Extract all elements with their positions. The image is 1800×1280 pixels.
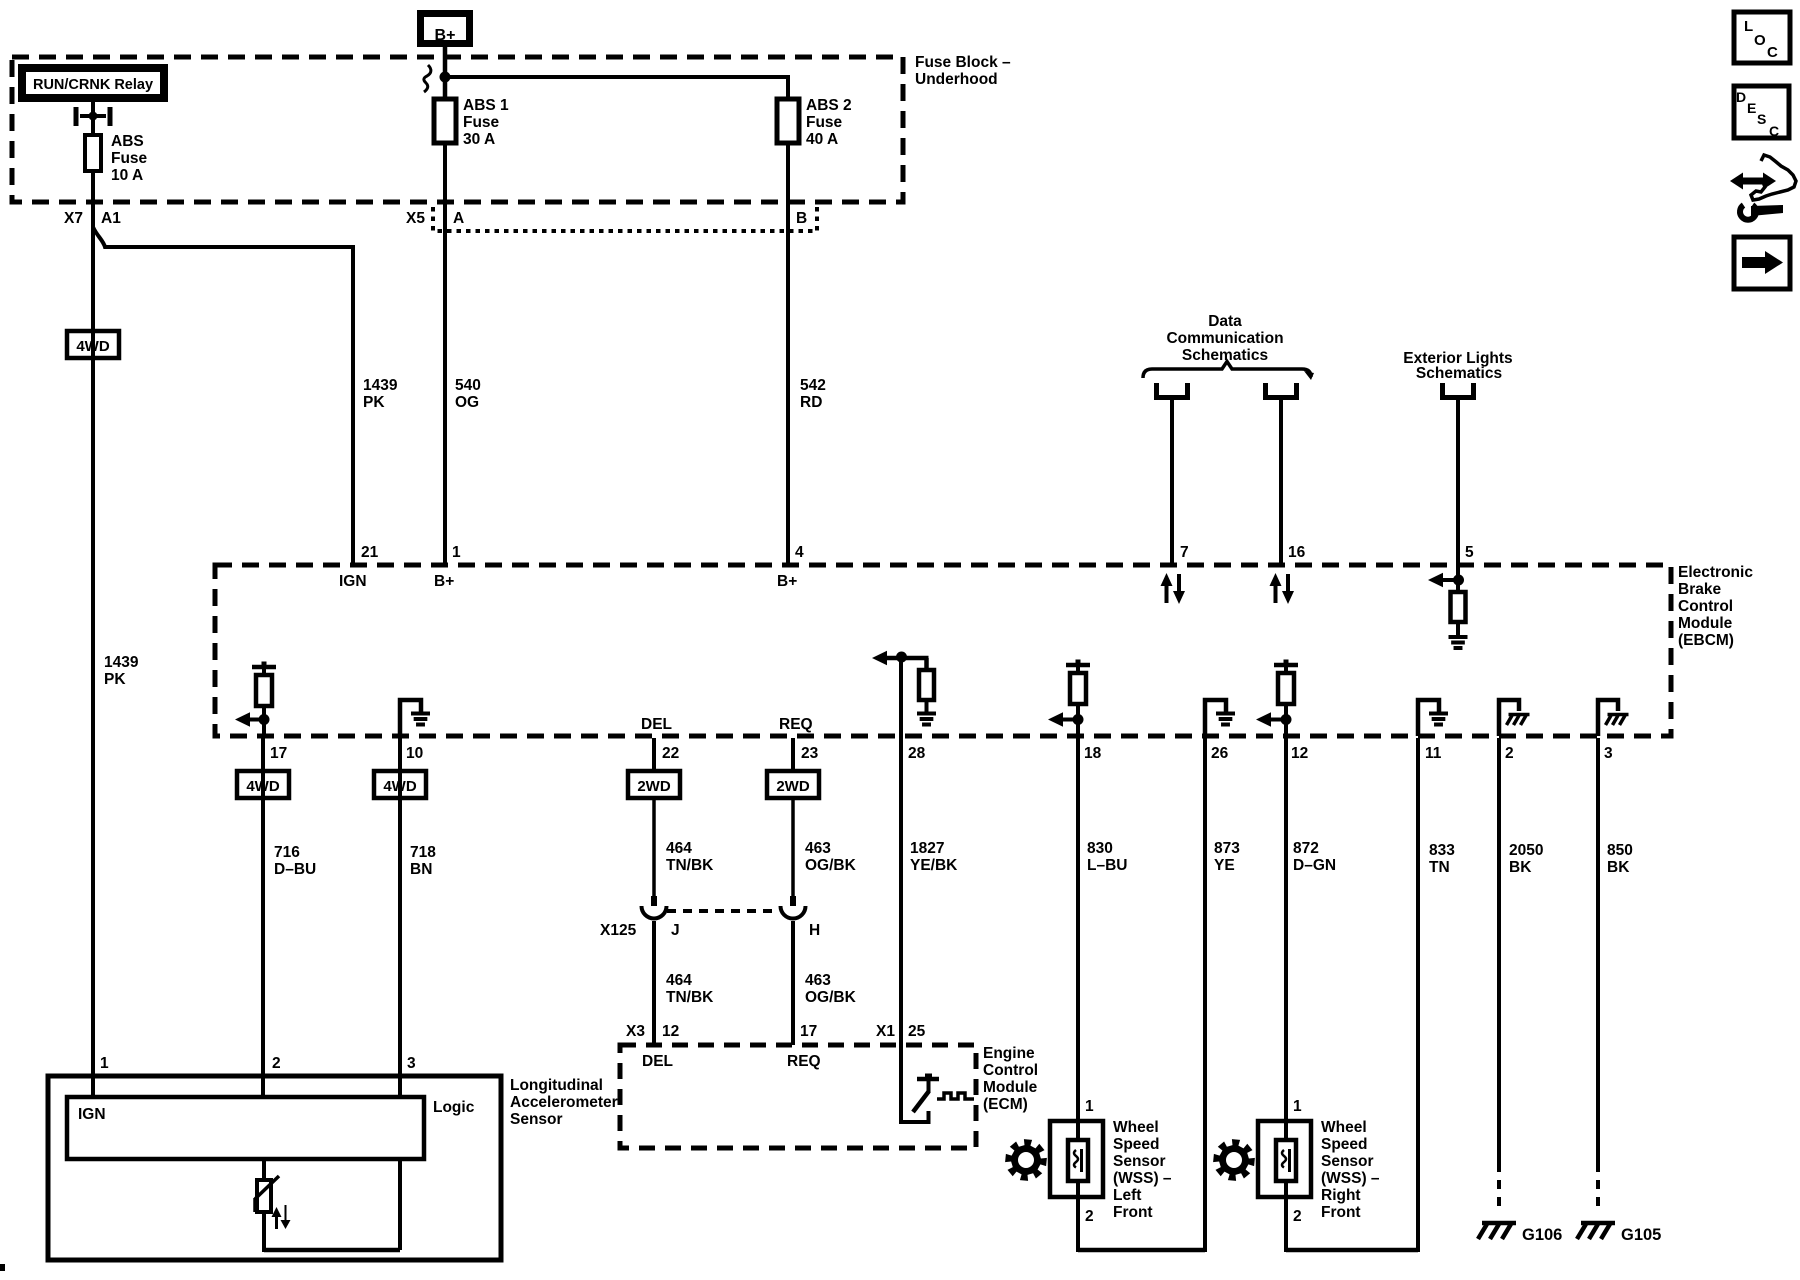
svg-text:Fuse: Fuse [111,150,148,167]
svg-text:4: 4 [795,544,804,561]
svg-text:X5: X5 [406,210,425,227]
svg-text:C: C [1767,44,1778,61]
svg-text:1: 1 [452,544,461,561]
svg-text:Schematics: Schematics [1416,365,1502,382]
chassis ground G105 [1577,1223,1615,1239]
svg-text:(WSS) –: (WSS) – [1113,1170,1172,1187]
svg-text:30 A: 30 A [463,131,495,148]
svg-text:540: 540 [455,377,481,394]
chassis ground G106 [1478,1223,1516,1239]
svg-text:YE: YE [1214,857,1235,874]
svg-text:Control: Control [983,1062,1038,1079]
wire B+ to ABS2 fuse [445,75,788,79]
svg-text:4WD: 4WD [383,778,417,795]
svg-text:X7: X7 [64,210,83,227]
wire relay to ABS fuse [91,102,95,135]
connector X125 H half circle [781,906,806,919]
svg-text:2WD: 2WD [776,778,810,795]
svg-text:Communication: Communication [1166,330,1283,347]
connector tag 2WD pin 22 [628,771,680,798]
svg-text:463: 463 [805,972,831,989]
ECM dashed box [620,1045,976,1148]
wire WSS left pin 2 to EBCM pin 26 [1078,1248,1205,1253]
svg-text:Sensor: Sensor [1321,1153,1374,1170]
svg-text:REQ: REQ [787,1053,821,1070]
svg-text:Fuse: Fuse [806,114,843,131]
wheel speed sensor left box [1050,1121,1103,1197]
sensor internal return wire [262,1212,266,1252]
svg-text:B+: B+ [777,573,797,590]
pin 10 internal ground hook [400,700,421,736]
svg-text:10 A: 10 A [111,167,143,184]
svg-text:YE/BK: YE/BK [910,857,958,874]
pin 3 internal chassis ground hook [1598,700,1618,736]
page edge mark [0,1264,5,1271]
svg-text:H: H [809,922,820,939]
bidirectional data arrows pin 7 [1165,584,1169,603]
svg-text:E: E [1747,100,1756,116]
svg-text:BK: BK [1509,859,1532,876]
svg-text:7: 7 [1180,544,1189,561]
wheel speed sensor right box [1258,1121,1311,1197]
connector X125 J half circle [642,906,667,918]
wire pin 22 DEL upper [652,738,656,771]
svg-text:Speed: Speed [1321,1136,1368,1153]
bidirectional data arrows pin 16 [1274,584,1278,603]
svg-text:Data: Data [1208,313,1242,330]
svg-text:IGN: IGN [78,1106,106,1123]
svg-text:(EBCM): (EBCM) [1678,632,1734,649]
svg-text:2: 2 [1505,745,1514,762]
svg-text:O: O [1754,32,1766,49]
fuse ABS Fuse 10 A [85,135,101,171]
svg-text:L: L [1744,18,1753,35]
wire X125 H to ECM REQ [791,921,795,1045]
wire pin 23 REQ upper [791,738,795,771]
pin 5 internal wire and arrow [1456,565,1460,592]
svg-text:(WSS) –: (WSS) – [1321,1170,1380,1187]
pin 12 junction and arrow [1281,714,1292,725]
pin 28 resistor to ground [924,658,929,670]
svg-text:TN/BK: TN/BK [666,989,714,1006]
svg-text:Longitudinal: Longitudinal [510,1077,603,1094]
gear icon right wheel [1213,1139,1255,1181]
wire WSS right inner [1284,1123,1288,1140]
svg-text:A1: A1 [101,210,121,227]
connector X5 dotted box [433,207,817,231]
svg-text:OG/BK: OG/BK [805,989,857,1006]
connector tag 4WD pin 17 [237,771,289,798]
off-page connector data comm 2 [1266,383,1297,398]
svg-text:Wheel: Wheel [1113,1119,1159,1136]
svg-text:872: 872 [1293,840,1319,857]
pin 5 ground [1449,635,1468,639]
svg-text:716: 716 [274,844,300,861]
svg-text:1: 1 [1293,1098,1302,1115]
svg-text:TN: TN [1429,859,1450,876]
wire pin 28 to ECM pin 25 [899,657,903,1045]
connector tag 4WD left [67,331,119,358]
wire 2WD to X125 H [791,798,795,896]
svg-text:Module: Module [1678,615,1733,632]
svg-text:40 A: 40 A [806,131,838,148]
wire to EBCM pin 16 [1279,400,1283,565]
svg-text:RUN/CRNK Relay: RUN/CRNK Relay [33,77,153,93]
splice squiggle symbol [424,65,431,92]
connector tag 4WD pin 10 [374,771,426,798]
ECM internal speed signal generator [901,1045,929,1122]
svg-text:(ECM): (ECM) [983,1096,1028,1113]
svg-text:Electronic: Electronic [1678,564,1753,581]
pin 12 pull-up resistor [1284,660,1289,666]
svg-text:1: 1 [100,1055,109,1072]
svg-text:D–GN: D–GN [1293,857,1336,874]
icon DESC box [1734,86,1789,138]
svg-text:2: 2 [1085,1208,1094,1225]
svg-text:Speed: Speed [1113,1136,1160,1153]
svg-text:Underhood: Underhood [915,71,998,88]
svg-text:X125: X125 [600,922,637,939]
svg-text:PK: PK [104,671,126,688]
wire to EBCM pin 7 [1170,400,1174,565]
pin 17 junction and arrow [259,714,270,725]
svg-text:PK: PK [363,394,385,411]
svg-text:Fuse Block –: Fuse Block – [915,54,1011,71]
relay RUN/CRNK Relay [22,68,164,98]
pin 26 internal ground hook [1205,700,1226,736]
svg-text:Front: Front [1321,1204,1361,1221]
power feed B+ terminal [421,14,470,44]
svg-text:23: 23 [801,745,819,762]
longitudinal accelerometer sensor box [48,1076,501,1260]
fuse ABS 2 40 A [777,99,799,143]
wire pin 17 to sensor pin 2 [261,738,265,1078]
svg-text:12: 12 [662,1023,679,1040]
pin 18 junction and arrow [1073,714,1084,725]
wire to EBCM pin 5 [1456,400,1460,565]
svg-text:10: 10 [406,745,423,762]
thermistor trend arrows [275,1215,278,1229]
svg-text:J: J [671,922,680,939]
svg-text:Wheel: Wheel [1321,1119,1367,1136]
svg-text:Engine: Engine [983,1045,1035,1062]
svg-text:C: C [1769,123,1779,139]
svg-text:21: 21 [361,544,379,561]
wire pin 3 to ground G105 [1596,738,1600,1163]
svg-text:2: 2 [1293,1208,1302,1225]
EBCM dashed box [215,565,1671,736]
svg-text:850: 850 [1607,842,1633,859]
svg-text:X3: X3 [626,1023,645,1040]
wire B+ to ABS1 fuse [443,45,448,99]
svg-text:833: 833 [1429,842,1455,859]
wire pin 18 to WSS left pin 1 [1076,738,1080,1123]
svg-text:B+: B+ [435,27,456,44]
svg-text:ABS 2: ABS 2 [806,97,852,114]
pin 17 pull-up resistor [262,662,267,668]
svg-text:17: 17 [270,745,287,762]
off-page connector exterior lights [1443,383,1474,398]
wire 542 RD to EBCM pin 4 [786,143,790,565]
svg-text:28: 28 [908,745,926,762]
svg-text:Sensor: Sensor [1113,1153,1166,1170]
wire fuse to connector X7 [91,171,95,232]
svg-text:DEL: DEL [642,1053,673,1070]
svg-text:G105: G105 [1621,1226,1661,1244]
wire pin 10 to sensor pin 3 [398,738,402,1078]
svg-text:BK: BK [1607,859,1630,876]
wire WSS left inner [1076,1123,1080,1140]
svg-text:Logic: Logic [433,1099,475,1116]
wire pin 2 to ground G106 [1497,738,1501,1163]
connector tag 2WD pin 23 [767,771,819,798]
svg-text:25: 25 [908,1023,926,1040]
svg-text:16: 16 [1288,544,1306,561]
svg-text:Accelerometer: Accelerometer [510,1094,618,1111]
overbrace data communication [1143,362,1311,379]
svg-text:18: 18 [1084,745,1102,762]
svg-text:4WD: 4WD [76,338,110,355]
thermistor element [262,1157,266,1180]
svg-text:Front: Front [1113,1204,1153,1221]
svg-text:464: 464 [666,972,692,989]
svg-text:Sensor: Sensor [510,1111,563,1128]
svg-text:ABS 1: ABS 1 [463,97,509,114]
svg-text:873: 873 [1214,840,1240,857]
fuse ABS 1 30 A [434,99,456,143]
svg-text:2WD: 2WD [637,778,671,795]
svg-text:464: 464 [666,840,692,857]
svg-text:D: D [1736,89,1746,105]
relay output terminal bracket [74,107,79,126]
svg-text:IGN: IGN [339,573,367,590]
svg-text:Right: Right [1321,1187,1361,1204]
Fuse Block - Underhood dashed box [12,57,903,202]
svg-text:Brake: Brake [1678,581,1721,598]
svg-text:1: 1 [1085,1098,1094,1115]
svg-text:718: 718 [410,844,436,861]
sensor logic block [67,1097,424,1159]
svg-text:2050: 2050 [1509,842,1543,859]
svg-text:3: 3 [407,1055,416,1072]
svg-text:Fuse: Fuse [463,114,500,131]
svg-text:2: 2 [272,1055,281,1072]
pin 5 pull resistor [1451,592,1466,622]
svg-text:RD: RD [800,394,822,411]
svg-text:TN/BK: TN/BK [666,857,714,874]
wire 2WD to X125 J [652,798,656,896]
icon forward arrow box [1734,237,1790,289]
wire 540 OG to EBCM pin 1 [443,143,447,565]
off-page connector data comm 1 [1157,383,1188,398]
svg-text:BN: BN [410,861,432,878]
svg-text:D–BU: D–BU [274,861,316,878]
pin 18 pull-up resistor [1076,660,1081,666]
sensor internal wires to logic [91,1076,95,1097]
pin 28 internal arrow and junction [885,656,929,661]
svg-text:26: 26 [1211,745,1229,762]
svg-text:17: 17 [800,1023,817,1040]
svg-text:1827: 1827 [910,840,944,857]
svg-text:DEL: DEL [641,716,672,733]
svg-text:REQ: REQ [779,716,813,733]
svg-text:3: 3 [1604,745,1613,762]
wire X125 J to ECM DEL [652,921,656,1045]
wire pin 12 to WSS right pin 1 [1284,738,1288,1123]
svg-text:11: 11 [1425,745,1442,762]
svg-text:X1: X1 [876,1023,895,1040]
svg-text:5: 5 [1465,544,1474,561]
pin 2 internal chassis ground hook [1499,700,1519,736]
wire WSS right pin 2 to EBCM pin 11 [1286,1248,1418,1253]
svg-text:OG/BK: OG/BK [805,857,857,874]
icon LOC box [1734,12,1790,63]
svg-text:1439: 1439 [104,654,139,671]
svg-text:542: 542 [800,377,826,394]
svg-text:OG: OG [455,394,479,411]
wire 1439 PK to sensor pin 1 [91,225,95,1078]
gear icon left wheel [1005,1139,1047,1181]
svg-text:22: 22 [662,745,679,762]
connector X125 dashed tie line [667,909,779,913]
svg-text:1439: 1439 [363,377,398,394]
svg-text:463: 463 [805,840,831,857]
svg-text:Module: Module [983,1079,1038,1096]
pin 11 internal ground hook [1418,700,1439,736]
svg-text:S: S [1757,111,1766,127]
svg-text:4WD: 4WD [246,778,280,795]
svg-text:L–BU: L–BU [1087,857,1127,874]
svg-text:12: 12 [1291,745,1308,762]
svg-text:B+: B+ [434,573,454,590]
wire branch to EBCM pin 21 [93,227,353,565]
svg-text:830: 830 [1087,840,1113,857]
svg-text:A: A [453,210,464,227]
svg-text:Left: Left [1113,1187,1141,1204]
svg-text:Control: Control [1678,598,1733,615]
junction B+ node [440,72,451,83]
svg-text:ABS: ABS [111,133,144,150]
svg-text:B: B [796,210,807,227]
svg-text:G106: G106 [1522,1226,1562,1244]
icon schematic navigation arrows and wrench [1740,178,1766,185]
